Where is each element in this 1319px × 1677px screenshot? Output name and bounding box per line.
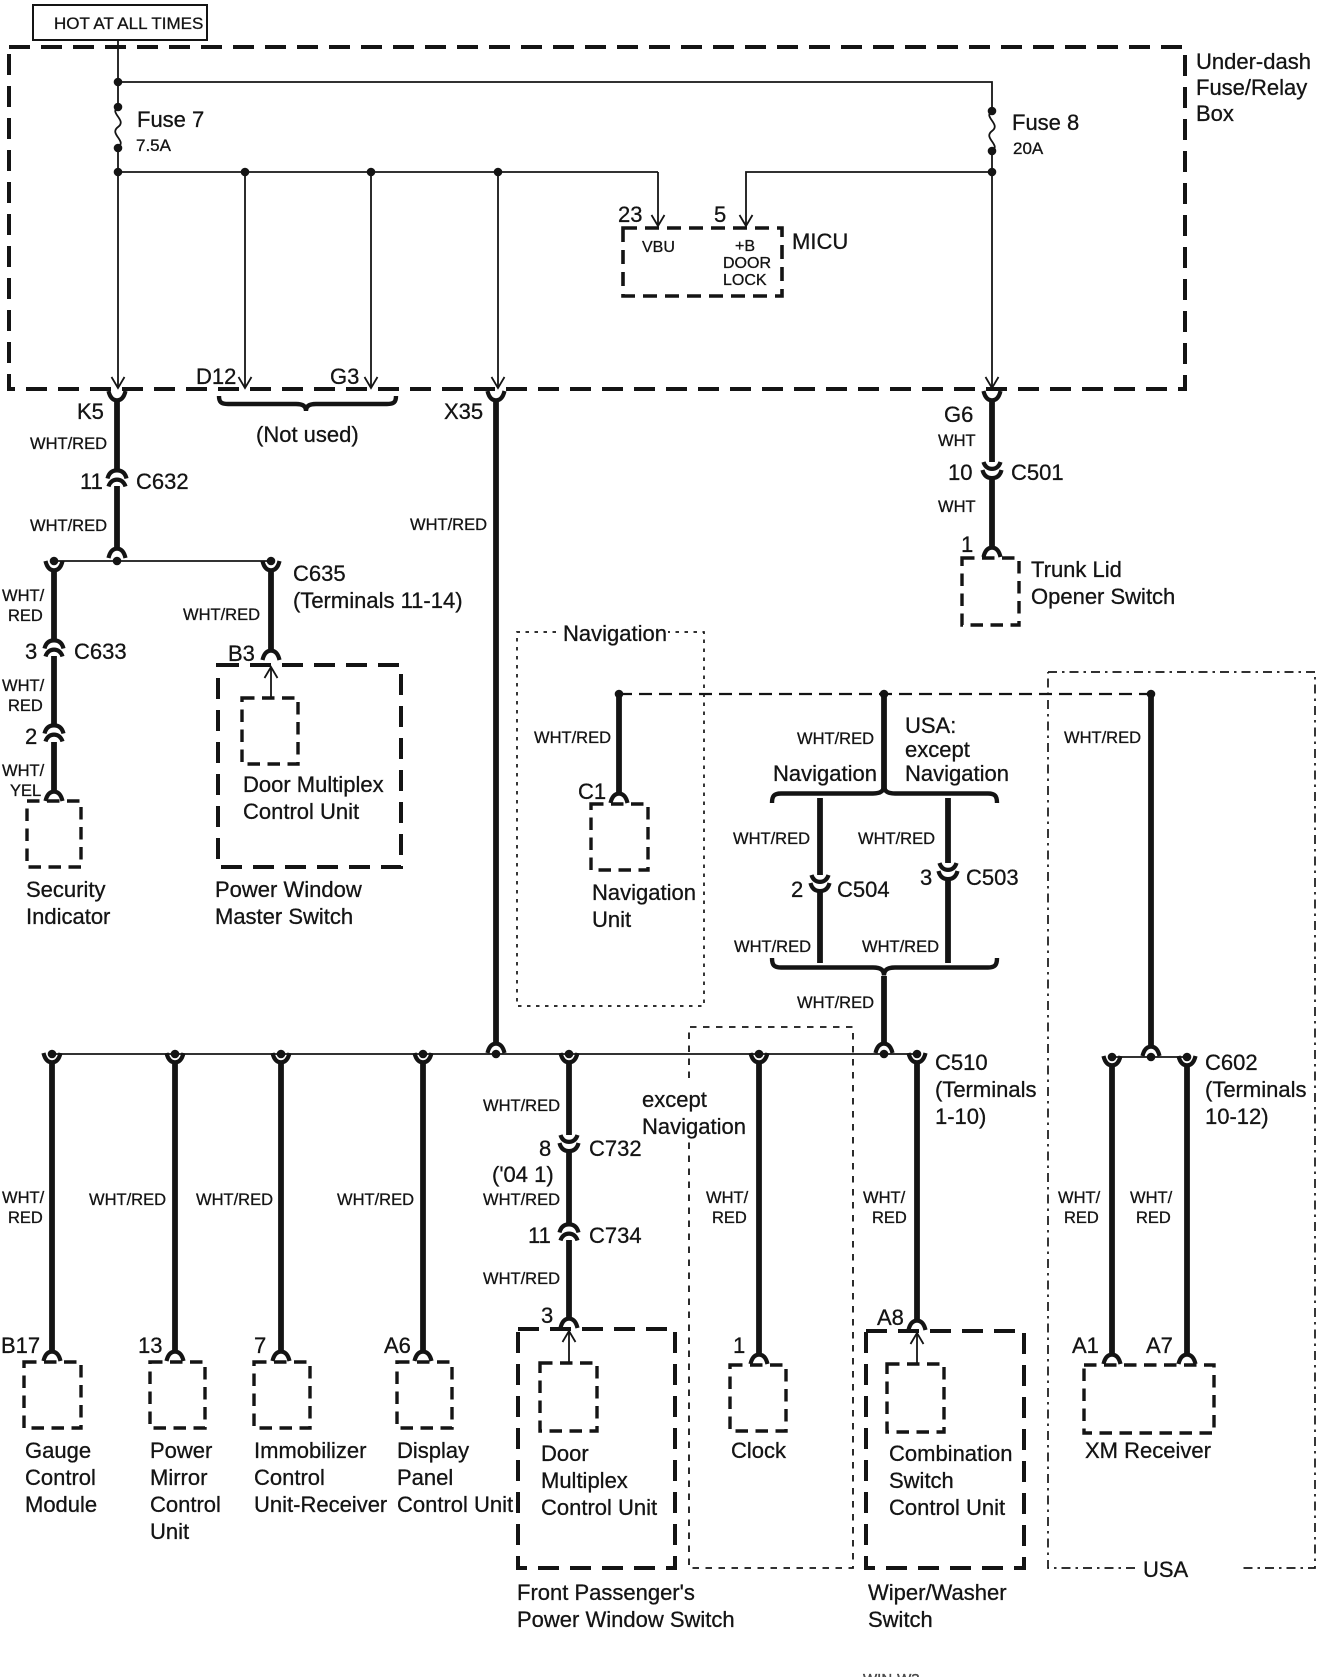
label Gauge Control Module [25,1438,97,1517]
svg-text:Fuse 8: Fuse 8 [1012,110,1079,135]
svg-text:7.5A: 7.5A [136,136,172,155]
connector: clock terminal [751,1355,768,1364]
svg-text:Fuse 7: Fuse 7 [137,107,204,132]
connector: A1 terminal [1104,1355,1121,1364]
label WHT/RED two-line [2,677,45,715]
wire WHT/RED to navigation unit [616,694,622,794]
svg-text:C635: C635 [293,561,346,586]
svg-text:WHT/RED: WHT/RED [30,517,107,535]
connector: A1 drop top [1104,1056,1121,1065]
node X35 feed [492,1050,501,1059]
svg-text:WHT: WHT [938,432,976,450]
label Display Panel Control Unit [397,1438,513,1517]
svg-text:Security: Security [26,877,105,902]
svg-text:WHT/RED: WHT/RED [534,729,611,747]
wire WHT/RED between connectors [566,1151,572,1224]
label Power Mirror Control Unit [150,1438,221,1544]
svg-text:RED: RED [8,607,43,625]
svg-text:Control Unit: Control Unit [889,1495,1005,1520]
svg-text:WHT/RED: WHT/RED [797,994,874,1012]
svg-text:YEL: YEL [10,782,41,800]
svg-text:Display: Display [397,1438,469,1463]
node C1 branch [615,690,624,699]
svg-text:C734: C734 [589,1223,642,1248]
wire: fuse 8 down to G6 [991,151,993,386]
label WHT/RED two-line [2,1189,45,1227]
component: Navigation Unit (dashed box) [591,804,648,870]
wire WHT upper [989,400,995,462]
svg-text:RED: RED [712,1209,747,1227]
svg-text:DOOR: DOOR [723,255,771,272]
wire WHT/RED A1 [1109,1065,1115,1355]
svg-text:7: 7 [254,1333,266,1358]
svg-text:C503: C503 [966,865,1019,890]
svg-text:Opener Switch: Opener Switch [1031,584,1175,609]
component: Power Window Master Switch (dashed box) [218,665,401,867]
svg-text:WHT/RED: WHT/RED [30,435,107,453]
svg-text:RED: RED [8,697,43,715]
component: Door Multiplex Control Unit (inner dashed box) [242,698,298,764]
node C510 drop [913,1050,922,1059]
pin label +B DOOR LOCK [723,238,771,289]
wire WHT/YEL to security indicator [51,742,57,792]
connector C732 pin 8 [560,1135,579,1151]
fuse F7 [114,103,123,153]
svg-text:11: 11 [528,1223,551,1248]
node center [113,557,122,566]
svg-text:Power: Power [150,1438,212,1463]
connector: A7 terminal [1179,1355,1196,1364]
svg-text:20A: 20A [1013,139,1044,158]
connector: C732 drop top [561,1053,578,1062]
svg-text:Navigation: Navigation [905,761,1009,786]
component: Clock (dashed box) [730,1365,786,1431]
svg-text:Control Unit: Control Unit [397,1492,513,1517]
connector: combination switch terminal [909,1321,926,1330]
fuse F8 [988,107,997,156]
wire WHT/RED to clock [756,1062,762,1355]
connector B3 [263,651,280,660]
wire: main distribution bus [52,1053,917,1055]
label WHT/YEL two-line [2,762,45,800]
svg-text:Wiper/Washer: Wiper/Washer [868,1580,1007,1605]
node display panel [419,1050,428,1059]
svg-text:C602: C602 [1205,1050,1258,1075]
svg-text:WHT/RED: WHT/RED [410,516,487,534]
svg-text:C732: C732 [589,1136,642,1161]
connector: trunk switch terminal [984,548,1001,557]
svg-text:10: 10 [948,460,972,485]
svg-text:8: 8 [539,1136,551,1161]
svg-text:WHT/RED: WHT/RED [1064,729,1141,747]
node left [50,557,59,566]
svg-text:WHT/: WHT/ [2,762,45,780]
label Under-dash Fuse/Relay Box [1196,49,1311,126]
label Power Window Master Switch [215,877,362,929]
wire: navigation option drop [817,798,823,875]
svg-text:WHT/RED: WHT/RED [337,1191,414,1209]
wire WHT lower [989,478,995,548]
svg-text:Panel: Panel [397,1465,453,1490]
connector: gauge drop top [44,1053,61,1062]
svg-text:Switch: Switch [889,1468,954,1493]
wire WHT/RED to B3 [268,570,274,651]
connector C503 pin 3 [939,863,958,879]
svg-text:Navigation: Navigation [592,880,696,905]
connector C635 top [263,561,280,570]
svg-text:K5: K5 [77,399,104,424]
svg-text:Indicator: Indicator [26,904,110,929]
component: Front Passenger's Power Window Switch (dashed box) [518,1329,675,1568]
connector: switch terminal [561,1319,578,1328]
svg-text:Clock: Clock [731,1438,787,1463]
wire K5 WHT/RED upper [114,400,120,470]
component: XM Receiver (dashed box) [1084,1365,1214,1433]
svg-text:Control: Control [25,1465,96,1490]
component: Display Panel Control Unit (dashed box) [397,1362,452,1428]
component: Door Multiplex Control Unit (inner dashed box) [540,1363,597,1431]
svg-text:Unit-Receiver: Unit-Receiver [254,1492,387,1517]
svg-text:Immobilizer: Immobilizer [254,1438,366,1463]
node A7 [1183,1053,1192,1062]
label WHT/RED two-line [1058,1189,1101,1227]
connector: security indicator terminal [46,792,63,801]
svg-text:3: 3 [25,639,37,664]
svg-text:VBU: VBU [642,239,675,256]
connector: power mirror terminal [167,1352,184,1361]
connector: immobilizer terminal [273,1352,290,1361]
label Trunk Lid Opener Switch [1031,557,1175,609]
svg-text:D12: D12 [196,364,236,389]
node gauge [48,1050,57,1059]
svg-text:WHT: WHT [938,498,976,516]
node clock [755,1050,764,1059]
svg-text:Unit: Unit [150,1519,189,1544]
svg-text:WHT/RED: WHT/RED [483,1097,560,1115]
svg-text:2: 2 [791,877,803,902]
label Navigation Unit [592,880,696,932]
svg-text:Door Multiplex: Door Multiplex [243,772,384,797]
node C732 [565,1050,574,1059]
svg-text:Fuse/Relay: Fuse/Relay [1196,75,1307,100]
connector: security branch top [46,561,63,570]
svg-text:WIN-W3: WIN-W3 [863,1671,920,1677]
svg-text:(Terminals: (Terminals [1205,1077,1306,1102]
svg-text:WHT/: WHT/ [2,1189,45,1207]
svg-text:WHT/: WHT/ [706,1189,749,1207]
connector: display panel drop top [415,1053,432,1062]
svg-text:MICU: MICU [792,229,848,254]
svg-text:Mirror: Mirror [150,1465,207,1490]
Navigation option enclosure (dotted box) [517,621,704,1006]
svg-text:XM Receiver: XM Receiver [1085,1438,1211,1463]
svg-text:A7: A7 [1146,1333,1173,1358]
label Wiper/Washer Switch [868,1580,1007,1632]
connector C1 [611,794,628,803]
svg-text:10-12): 10-12) [1205,1104,1269,1129]
svg-text:1: 1 [961,532,973,557]
wire WHT/RED to immobilizer [278,1062,284,1352]
svg-text:+B: +B [735,238,755,255]
wire: XM bus [1112,1056,1187,1058]
connector: wire end at junction [109,549,126,558]
label Door Multiplex Control Unit [541,1441,657,1520]
power source label HOT AT ALL TIMES [33,5,207,40]
svg-text:C632: C632 [136,469,189,494]
component: Power Mirror Control Unit (dashed box) [150,1362,205,1428]
wire: junction bar [54,560,271,562]
svg-text:A6: A6 [384,1333,411,1358]
connector: clock drop top [751,1053,768,1062]
svg-text:RED: RED [872,1209,907,1227]
connector C510 drop top [909,1053,926,1062]
svg-text:HOT AT ALL TIMES: HOT AT ALL TIMES [54,14,203,33]
svg-text:C501: C501 [1011,460,1064,485]
wire: internal arrow [916,1335,918,1364]
wire: G3 drop (not used) [370,172,372,386]
connector X35 female [488,391,505,400]
svg-text:Under-dash: Under-dash [1196,49,1311,74]
connector: A7 drop top [1179,1056,1196,1065]
connector C504 pin 2 [811,875,830,891]
svg-text:except: except [905,737,970,762]
svg-text:Control Unit: Control Unit [243,799,359,824]
svg-text:WHT/RED: WHT/RED [734,938,811,956]
connector: feed end at XM bus [1143,1047,1160,1056]
svg-text:1-10): 1-10) [935,1104,986,1129]
connector: X35 wire end at bus [488,1044,505,1053]
svg-text:C1: C1 [578,779,606,804]
label C635 (Terminals 11-14) [293,561,463,613]
svg-text:(Terminals 11-14): (Terminals 11-14) [293,588,463,613]
brace: D12/G3 not used [219,396,396,411]
wire WHT/RED below C633 [51,656,57,725]
svg-text:RED: RED [8,1209,43,1227]
wire WHT/RED to C633 [51,570,57,640]
label Door Multiplex Control Unit [243,772,384,824]
svg-text:(Not used): (Not used) [256,422,359,447]
Under-dash Fuse/Relay Box (dashed enclosure) [9,47,1185,389]
connector: display panel terminal [415,1352,432,1361]
wire: D12 drop (not used) [244,172,246,386]
wire: K5 drop inside box [117,172,119,386]
svg-text:Combination: Combination [889,1441,1013,1466]
wire WHT/RED to C732 [566,1062,572,1135]
wire WHT/RED A7 [1184,1065,1190,1355]
node feed [1147,1053,1156,1062]
connector pin 2 [45,725,64,741]
svg-text:Power Window Switch: Power Window Switch [517,1607,735,1632]
connector: wire end at bus [876,1044,893,1053]
svg-text:Box: Box [1196,101,1234,126]
svg-text:13: 13 [138,1333,162,1358]
node right [267,557,276,566]
svg-text:B3: B3 [228,641,255,666]
svg-text:1: 1 [733,1333,745,1358]
svg-text:A1: A1 [1072,1333,1099,1358]
component: Gauge Control Module (dashed box) [24,1362,81,1428]
svg-text:Trunk Lid: Trunk Lid [1031,557,1122,582]
svg-text:Module: Module [25,1492,97,1517]
svg-text:WHT/: WHT/ [1130,1189,1173,1207]
wire: option bus (dashed) [619,693,1151,695]
label WHT/RED two-line [1130,1189,1173,1227]
svg-text:11: 11 [80,469,103,494]
svg-text:Control: Control [254,1465,325,1490]
svg-text:Gauge: Gauge [25,1438,91,1463]
connector G6 female [984,391,1001,400]
node: junction at top bus [114,78,123,87]
svg-text:Navigation: Navigation [773,761,877,786]
connector: gauge terminal [44,1352,61,1361]
wire: internal arrow to door multiplex unit [270,669,272,698]
USA option enclosure (dash-dot box) [1048,672,1315,1582]
svg-text:Door: Door [541,1441,589,1466]
svg-text:Switch: Switch [868,1607,933,1632]
svg-text:LOCK: LOCK [723,272,767,289]
node: junction G3 column [367,168,376,177]
svg-text:WHT/RED: WHT/RED [858,830,935,848]
label C510 (Terminals 1-10) [935,1050,1036,1129]
svg-text:Multiplex: Multiplex [541,1468,628,1493]
svg-text:WHT/RED: WHT/RED [862,938,939,956]
component: Combination Switch Control Unit outer (dashed box) [866,1331,1024,1568]
connector: power mirror drop top [167,1053,184,1062]
wire: fuse 7 output bus [117,148,119,172]
svg-text:2: 2 [25,724,37,749]
node A1 [1108,1053,1117,1062]
label WHT/RED two-line [2,587,45,625]
label Security Indicator [26,877,110,929]
brace: splitter top [772,786,997,804]
svg-text:Unit: Unit [592,907,631,932]
svg-text:except: except [642,1087,707,1112]
wire below C504 [817,891,823,963]
svg-text:C504: C504 [837,877,890,902]
except Navigation option enclosure (dotted box) [689,1027,853,1568]
node: junction D12 column [241,168,250,177]
wire: internal arrow to door multiplex unit [568,1333,570,1363]
svg-text:5: 5 [714,202,726,227]
node XM branch [1147,690,1156,699]
svg-text:Control Unit: Control Unit [541,1495,657,1520]
wire: HOT feed down to fuse 7 [117,40,119,107]
wire WHT/RED to power mirror unit [172,1062,178,1352]
label Front Passenger's Power Window Switch [517,1580,735,1632]
svg-text:WHT/RED: WHT/RED [733,830,810,848]
svg-text:Control: Control [150,1492,221,1517]
svg-text:G6: G6 [944,402,973,427]
wire WHT/RED below C632 [114,486,120,549]
label Immobilizer Control Unit-Receiver [254,1438,387,1517]
svg-text:3: 3 [541,1303,553,1328]
label Combination Switch Control Unit [889,1441,1013,1520]
wire: X35 drop inside box [497,172,499,386]
component: Trunk Lid Opener Switch (dashed box) [962,558,1019,625]
connector C633 pin 3 [45,640,64,656]
wire WHT/RED XM feed [1148,694,1154,1047]
svg-text:G3: G3 [330,364,359,389]
svg-text:WHT/RED: WHT/RED [483,1191,560,1209]
wire WHT/RED to switch [566,1240,572,1319]
label except Navigation [640,1082,761,1142]
wire WHT/RED to gauge control module [49,1062,55,1352]
node: junction X35 column [494,168,503,177]
svg-text:USA: USA [1143,1557,1189,1582]
svg-text:WHT/: WHT/ [2,677,45,695]
svg-text:3: 3 [920,865,932,890]
svg-text:WHT/RED: WHT/RED [183,606,260,624]
svg-text:WHT/: WHT/ [2,587,45,605]
node power mirror [171,1050,180,1059]
connector C501 pin 10 [983,462,1002,478]
svg-text:Power Window: Power Window [215,877,362,902]
wire X35 WHT/RED main drop [493,400,499,1044]
svg-text:RED: RED [1064,1209,1099,1227]
label C602 (Terminals 10-12) [1205,1050,1306,1129]
label WHT/RED two-line [706,1189,749,1227]
svg-text:23: 23 [618,202,642,227]
svg-text:RED: RED [1136,1209,1171,1227]
svg-text:Front Passenger's: Front Passenger's [517,1580,695,1605]
connector C632 pin 11 [108,470,127,486]
node C510 feed [880,1050,889,1059]
label USA: except Navigation (right option) [905,713,1009,786]
svg-text:WHT/RED: WHT/RED [89,1191,166,1209]
node: junction fuse 8 column [988,168,997,177]
component: inner control unit (dashed box) [887,1364,944,1432]
label WHT/RED two-line [863,1189,907,1227]
svg-text:WHT/RED: WHT/RED [196,1191,273,1209]
svg-text:Master Switch: Master Switch [215,904,353,929]
wire WHT/RED to combination switch [914,1062,920,1321]
svg-text:('04 1): ('04 1) [492,1162,554,1187]
svg-text:Navigation: Navigation [563,621,667,646]
node splitter branch [880,690,889,699]
svg-text:A8: A8 [877,1305,904,1330]
MICU U1 (dashed box) [623,228,782,296]
component: Security Indicator (dashed box) [27,801,81,867]
wire: top bus to fuse 8 [118,82,992,111]
node immobilizer [277,1050,286,1059]
brace: splitter bottom [772,958,997,976]
svg-text:X35: X35 [444,399,483,424]
svg-text:WHT/: WHT/ [863,1189,906,1207]
wire below C503 [945,879,951,963]
wire WHT/RED to display panel [420,1062,426,1352]
svg-text:(Terminals: (Terminals [935,1077,1036,1102]
connector C734 pin 11 [560,1224,579,1240]
svg-text:C633: C633 [74,639,127,664]
node: junction K5 column [114,168,123,177]
svg-text:WHT/RED: WHT/RED [483,1270,560,1288]
wire: USA option drop [945,798,951,863]
svg-text:C510: C510 [935,1050,988,1075]
wire WHT/RED to bus [881,976,887,1044]
svg-text:Navigation: Navigation [642,1114,746,1139]
connector: immobilizer drop top [273,1053,290,1062]
svg-text:WHT/RED: WHT/RED [797,730,874,748]
wire: MICU pin 5 feed from fuse 8 [746,172,992,224]
svg-text:B17: B17 [1,1333,40,1358]
svg-text:WHT/: WHT/ [1058,1189,1101,1207]
wire: MICU pin 23 feed [657,172,659,224]
svg-text:USA:: USA: [905,713,956,738]
connector K5 female [109,391,126,400]
component: Immobilizer Control Unit-Receiver (dashed box) [254,1362,310,1428]
wire WHT/RED splitter feed [881,694,887,790]
